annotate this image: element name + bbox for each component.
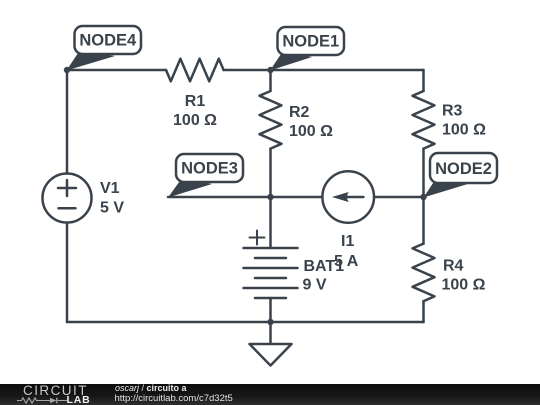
voltage source V1 <box>43 174 125 223</box>
svg-text:5 V: 5 V <box>100 200 124 217</box>
wire right rail upper lead <box>422 70 425 91</box>
node label NODE2 <box>424 153 498 198</box>
resistor R4 <box>413 244 486 302</box>
svg-text:100 Ω: 100 Ω <box>289 123 333 140</box>
svg-text:R1: R1 <box>185 93 206 110</box>
svg-text:100 Ω: 100 Ω <box>442 277 486 294</box>
svg-text:R3: R3 <box>442 103 463 120</box>
current source I1 <box>322 171 374 270</box>
svg-text:NODE1: NODE1 <box>282 32 339 50</box>
wire battery bottom lead <box>269 298 272 322</box>
node NODE4 junction dot <box>64 67 70 73</box>
wire NODE3 horizontal left <box>168 196 322 199</box>
wire R3 bottom lead <box>422 149 425 197</box>
svg-text:BAT1: BAT1 <box>304 258 345 275</box>
node ground junction dot <box>267 319 273 325</box>
wire NODE3 horizontal right <box>374 196 424 199</box>
CircuitLab logo squiggle <box>17 397 67 404</box>
wire R4 bottom lead <box>422 301 425 322</box>
wire top rail right segment <box>271 69 424 72</box>
wire top rail left segment <box>67 69 166 72</box>
CircuitLab logo wordmark <box>23 383 88 398</box>
wire ground stub <box>269 322 272 344</box>
svg-text:NODE4: NODE4 <box>79 31 137 49</box>
node label NODE4 <box>67 26 142 71</box>
credit line 2 <box>115 393 233 404</box>
svg-text:NODE2: NODE2 <box>435 160 492 178</box>
resistor R3 <box>413 91 487 149</box>
wire left rail lower <box>66 223 69 323</box>
svg-text:I1: I1 <box>341 233 354 250</box>
svg-text:100 Ω: 100 Ω <box>442 122 486 139</box>
wire R2 top lead <box>269 70 272 91</box>
wire left rail upper <box>66 70 69 174</box>
wire top rail middle segment <box>224 69 271 72</box>
ground <box>250 344 292 366</box>
node label NODE3 <box>168 154 243 198</box>
svg-text:R2: R2 <box>289 104 310 121</box>
svg-text:V1: V1 <box>100 180 120 197</box>
credit line 1 <box>115 383 187 393</box>
battery BAT1 <box>244 231 345 299</box>
resistor R2 <box>260 91 334 149</box>
node NODE2 junction dot <box>420 194 426 200</box>
node NODE3 junction dot <box>267 194 273 200</box>
wire R4 top lead <box>422 197 425 244</box>
svg-text:9 V: 9 V <box>303 277 327 294</box>
node NODE1 junction dot <box>267 67 273 73</box>
wire bottom rail <box>67 321 424 324</box>
svg-text:R4: R4 <box>443 258 464 275</box>
resistor R1 <box>166 59 224 129</box>
svg-text:NODE3: NODE3 <box>181 160 238 178</box>
wire battery top lead <box>269 197 272 248</box>
node label NODE1 <box>270 27 344 71</box>
wire R2 bottom lead <box>269 149 272 197</box>
footer bar <box>0 384 540 405</box>
svg-text:100 Ω: 100 Ω <box>173 112 217 129</box>
